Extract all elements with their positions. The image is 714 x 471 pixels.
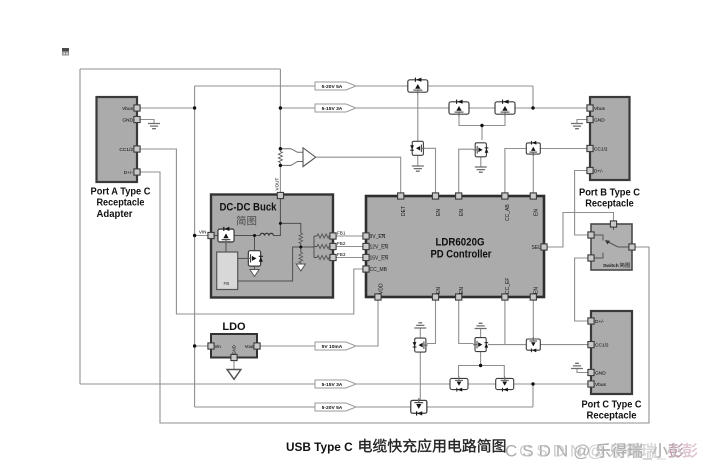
svg-text:LDO: LDO [222, 321, 246, 333]
svg-text:GND: GND [232, 345, 237, 354]
svg-text:5-20V 5A: 5-20V 5A [322, 405, 343, 411]
Port C Type C Receptacle block [591, 311, 632, 394]
pin VDD (bottom1) [375, 294, 381, 300]
svg-text:Adapter: Adapter [97, 209, 133, 220]
svg-text:EN: EN [534, 287, 540, 294]
wire Q4 source to ground [417, 155, 419, 166]
wire Port A GND to ground [137, 120, 154, 124]
svg-text:5V 10mA: 5V 10mA [322, 344, 343, 350]
svg-text:PD Controller: PD Controller [431, 249, 492, 261]
svg-text:FB: FB [224, 281, 230, 286]
pin Vout LDO [254, 343, 260, 349]
wire 5-20V drop x=533 into VBUS line [532, 86, 534, 108]
wire bottom CC line controller to Port C CC1/2 through Q11 [504, 297, 506, 345]
transistor Q5 pulldown (gate driver) [473, 143, 488, 157]
svg-text:9V_EN: 9V_EN [370, 234, 386, 240]
svg-text:5-15V 3A: 5-15V 3A [322, 382, 343, 388]
value label 5-20V 5A bottom [315, 403, 356, 411]
wire gate bracket of back-to-back FETs Q2 Q3 [459, 117, 505, 126]
svg-text:DC-DC Buck: DC-DC Buck [220, 202, 278, 214]
transistor Q13 back-to-back FET bottom [450, 376, 468, 391]
svg-text:Vbus: Vbus [594, 106, 606, 112]
PD controller U1 LDR6020G [366, 196, 544, 297]
svg-text:CC_EF: CC_EF [505, 278, 511, 294]
wire tap to LDO Vin [195, 345, 211, 347]
svg-text:Vbus: Vbus [595, 382, 607, 388]
ground below LDO [227, 370, 241, 380]
svg-text:Receptacle: Receptacle [97, 198, 145, 209]
Port A Type C Receptacle Adapter block [97, 97, 138, 182]
node VOUT sense resistor on x=280.4 [278, 151, 282, 162]
svg-text:Vout: Vout [245, 344, 255, 349]
wire VOUT node to divider [280, 223, 300, 233]
wire Q7 gate into FB controller box [225, 243, 227, 252]
value label 5V 10mA [315, 342, 356, 350]
node junction 5-20V drop on VBUS [531, 106, 534, 109]
pin FB2 [330, 243, 336, 249]
svg-text:CSDN@: CSDN@ [519, 442, 609, 461]
svg-text:EN: EN [436, 287, 442, 294]
svg-text:LDR6020G: LDR6020G [436, 237, 485, 249]
wire Port B GND to ground [577, 120, 590, 124]
svg-text:D+/-: D+/- [594, 169, 604, 175]
wire VOUT loop top y=69 [80, 68, 280, 70]
inverted ground above Q9 [414, 323, 426, 328]
pin switch control (top) [610, 221, 616, 227]
svg-text:Port C Type C: Port C Type C [582, 400, 642, 411]
pin 12V_EN [363, 243, 369, 249]
wire Q9 source up to inverted ground [419, 328, 421, 338]
pin CC_MB [363, 266, 369, 272]
svg-text:CC_AB: CC_AB [505, 204, 511, 221]
transistor Q3 back-to-back FET on VBUS line [495, 100, 515, 117]
svg-text:FB2: FB2 [337, 241, 346, 246]
svg-text:GND: GND [122, 118, 133, 124]
wire comparator output to controller DET pin [316, 157, 401, 196]
pin Vin LDO [208, 343, 214, 349]
node junction VBUS/VOUT [279, 106, 282, 109]
wire FB1 to 9V_EN [333, 235, 366, 237]
svg-text:Receptacle: Receptacle [587, 411, 637, 422]
pin D+/- Port B [587, 167, 593, 173]
wire SEL to switch control pin [544, 213, 614, 248]
svg-text:Vbus: Vbus [122, 106, 134, 112]
op-amp U2 current sense comparator [303, 148, 316, 167]
wire Q6 gate to controller EN pin x=533.5 [532, 154, 534, 196]
pin GND LDO [231, 354, 237, 360]
svg-text:CC1/2: CC1/2 [119, 147, 133, 153]
svg-text:GND: GND [595, 371, 606, 377]
Port B title [579, 188, 641, 210]
svg-text:CC_MB: CC_MB [370, 267, 388, 273]
wire Port B D+/- to switch throw 1 [575, 171, 591, 236]
DC-DC Buck block [211, 195, 333, 298]
LDO block [211, 334, 257, 358]
Port A title [91, 187, 151, 221]
pin Vbus Port C [588, 381, 594, 387]
resistor divider top [299, 233, 303, 243]
wire VIN tap to DC-DC Buck [195, 235, 211, 237]
pin CC_EF (bottom4) [502, 294, 508, 300]
wire switch common to Port A D+/- (big loop) [137, 172, 649, 423]
pin FB3 [330, 254, 336, 260]
transistor Q8 buck low-side FET [246, 251, 263, 266]
transistor Q4 pulldown (gate driver) [410, 141, 425, 155]
pin EN (top2) [432, 193, 438, 199]
transistor Q14 back-to-back FET bottom [496, 376, 514, 391]
transistor Q2 back-to-back FET on VBUS line [449, 100, 469, 117]
wire Q11 gate up to controller EN pin [532, 297, 534, 339]
transistor Q10 pulldown bottom B [473, 338, 488, 352]
resistor R1 to FB1 [314, 235, 317, 237]
ground at Port B [571, 124, 583, 129]
wire Port A Vbus to 5-20V riser [137, 107, 195, 109]
inductor L1 [260, 233, 274, 235]
transistor Q9 pulldown bottom A [413, 338, 428, 352]
svg-text:Switch: Switch [603, 263, 619, 269]
wire VOUT vertical x=280.4 from top loop to DC-DC VOUT pin [279, 69, 281, 152]
wire switch node to Q8 [254, 236, 256, 252]
resistor divider bottom [299, 252, 303, 262]
pin switch common [629, 244, 635, 250]
node switch node dot [253, 234, 256, 237]
pin switch throw2 [588, 255, 594, 261]
wire Port C GND to inverted ground [577, 369, 591, 373]
pin GND Port A [134, 116, 140, 122]
pin D+/- Port A [134, 169, 140, 175]
svg-text:EN: EN [459, 209, 465, 216]
wire FB3 to 15V_EN [333, 257, 366, 259]
svg-text:VIN: VIN [199, 230, 207, 235]
svg-text:USB Type C: USB Type C [286, 440, 353, 454]
node junction sense bottom [279, 164, 282, 167]
pin SEL [541, 244, 547, 250]
node junction bottom gate bracket [479, 364, 482, 367]
pin GND Port B [587, 116, 593, 122]
pin EN (top5) [530, 193, 536, 199]
inverted ground above Q10 [475, 323, 487, 328]
svg-text:FB1: FB1 [337, 231, 346, 236]
pin 15V_EN [363, 254, 369, 260]
wire LDO Vout 5V to controller VDD [257, 297, 378, 346]
FB controller box U3 [217, 252, 238, 290]
wire Q4 gate to controller EN pin x=435.5 [426, 148, 436, 196]
transistor Q12 pass FET on 5-20V bottom line [411, 398, 427, 415]
transistor Q1 pass FET on 5-20V top line [408, 78, 428, 95]
wire controller EN to Q10 gate (bottom pulldown B) [459, 297, 474, 344]
svg-text:5-20V 5A: 5-20V 5A [322, 84, 343, 90]
pin EN (bottom5) [530, 294, 536, 300]
pin GND Port C [588, 369, 594, 375]
transistor Q6 CC switch to Port B [526, 141, 540, 156]
svg-text:12V_EN: 12V_EN [370, 245, 389, 251]
DC-DC subtitle (simplified diagram) [237, 216, 246, 226]
value label 5-15V 3A top [315, 104, 356, 112]
pin VOUT DC-DC [277, 192, 283, 198]
value label 5-20V 5A top [315, 82, 356, 90]
svg-text:CC1/2: CC1/2 [594, 147, 608, 153]
pin EN (bottom2) [432, 294, 438, 300]
arrow ground below Q8 [250, 270, 259, 277]
wire Port A CC1/2 to controller CC_MB [137, 149, 366, 314]
svg-text:5-15V 3A: 5-15V 3A [322, 106, 343, 112]
wire VOUT loop left vertical x=80 [79, 69, 81, 384]
wire FB sense from divider mid [238, 247, 301, 281]
Port B Type C Receptacle block [590, 97, 630, 180]
svg-text:EN: EN [436, 209, 442, 216]
svg-text:CC1/2: CC1/2 [595, 343, 609, 349]
svg-text:VOUT: VOUT [274, 178, 279, 191]
pin D+/- Port C [588, 318, 594, 324]
node junction VBUS riser Port C [531, 382, 534, 385]
wire VIN vertical rail x=194.6 down to 5-20V bottom line [194, 108, 196, 407]
wire Q10 drain to gate bracket of Q13 Q14 [480, 352, 482, 366]
wire VBUS 5-15V rail to Port B (y=108) [280, 107, 591, 109]
comparator U2 input taps from VOUT sense resistor [280, 149, 303, 153]
resistor R3 to FB3 [314, 257, 317, 259]
wire 5-20V top line y=86 from Port A riser [195, 85, 533, 87]
arrow ground below divider [296, 264, 305, 271]
inverted ground at Port C [571, 363, 583, 368]
pin Vbus Port B [587, 105, 593, 111]
node junction VIN tap [193, 234, 196, 237]
switch internal SPDT symbol [591, 235, 603, 241]
Switch block (USB data mux) [591, 224, 632, 270]
svg-text:15V_EN: 15V_EN [370, 256, 389, 262]
transistor Q7 buck high-side FET [218, 227, 234, 244]
wire 5-20V riser x=194.6 [194, 86, 196, 108]
broken image icon top-left [62, 48, 69, 56]
svg-text:D+/-: D+/- [595, 319, 605, 325]
wire Q10 source up to inverted ground [480, 329, 482, 338]
pin CC_AB (top4) [502, 193, 508, 199]
ground below Q5 [475, 167, 487, 172]
wire switch throw 2 to Port C D+/- [575, 258, 591, 321]
wire gate link top pass FET Q1 to pulldown Q4 [417, 95, 419, 142]
wire Q5 gate to controller EN pin x=458.7 [459, 149, 474, 196]
node junction LDO tap [193, 344, 196, 347]
wire VIN to Q7 [211, 235, 219, 237]
pin EN (bottom3) [456, 294, 462, 300]
U1 title [431, 237, 492, 261]
svg-text:_: _ [656, 444, 667, 461]
svg-text:DET: DET [401, 206, 407, 216]
svg-text:Port B Type C: Port B Type C [579, 188, 641, 199]
pin DET (top1) [398, 193, 404, 199]
wire Q7 to inductor and switch node [233, 235, 260, 237]
wire riser x=533 from 5-20V line to Port C VBUS line [532, 384, 534, 407]
svg-text:FB3: FB3 [337, 252, 346, 257]
svg-text:SEL: SEL [532, 245, 542, 251]
wire inductor to VOUT node [274, 198, 281, 236]
svg-text:EN: EN [534, 209, 540, 216]
svg-text:Receptacle: Receptacle [585, 199, 634, 210]
wire Q9 drain down to bottom pass FET Q12 gate [419, 352, 421, 400]
wire divider mid to FB resistor fan [301, 246, 314, 248]
node junction top gate bracket [480, 124, 483, 127]
svg-text:VDD: VDD [378, 283, 384, 294]
wire controller EN to Q9 gate (bottom pulldown A) [427, 297, 436, 344]
pin switch throw1 [588, 232, 594, 238]
pin CC1/2 Port C [588, 342, 594, 348]
wire LDO GND to ground [233, 358, 235, 370]
pin CC1/2 Port A [134, 146, 140, 152]
pin VIN DC-DC [208, 232, 214, 238]
pin FB1 [330, 233, 336, 239]
node junction sense top [279, 147, 282, 150]
node divider mid dot [299, 246, 302, 249]
wire Q5 source to ground [480, 156, 482, 167]
node junction VBUS/VIN rail [193, 106, 196, 109]
svg-text:D+/-: D+/- [124, 170, 134, 176]
wire Q8 source to arrow ground [254, 266, 256, 270]
svg-text:EN: EN [459, 287, 465, 294]
wire 5-15V bottom line y=384 (VOUT loop) to Port C Vbus [80, 383, 591, 385]
wire CC line Port B through Q6 to controller CC pin [505, 149, 590, 197]
ground at Port A [148, 124, 160, 129]
Port C title [582, 400, 642, 422]
pin 9V_EN [363, 233, 369, 239]
pin Vbus Port A [134, 105, 140, 111]
pin CC1/2 Port B [587, 145, 593, 151]
svg-text:GND: GND [594, 118, 605, 124]
ground below Q4 [412, 166, 424, 171]
wire 5-20V bottom line y=407 to Port C [195, 406, 533, 408]
wire gate bracket bottom b2b FETs [459, 366, 505, 378]
svg-text:Vin: Vin [215, 344, 222, 349]
transistor Q11 CC switch to Port C [526, 337, 540, 352]
node VOUT tee dot [279, 222, 282, 225]
value label 5-15V 3A bottom [315, 380, 356, 388]
resistor R2 to FB2 [314, 246, 317, 248]
wire FB2 to 12V_EN [333, 246, 366, 248]
wire FB box to Q8 gate [238, 257, 248, 259]
pin EN (top3) [456, 193, 462, 199]
svg-text:Port A Type C: Port A Type C [91, 187, 151, 198]
